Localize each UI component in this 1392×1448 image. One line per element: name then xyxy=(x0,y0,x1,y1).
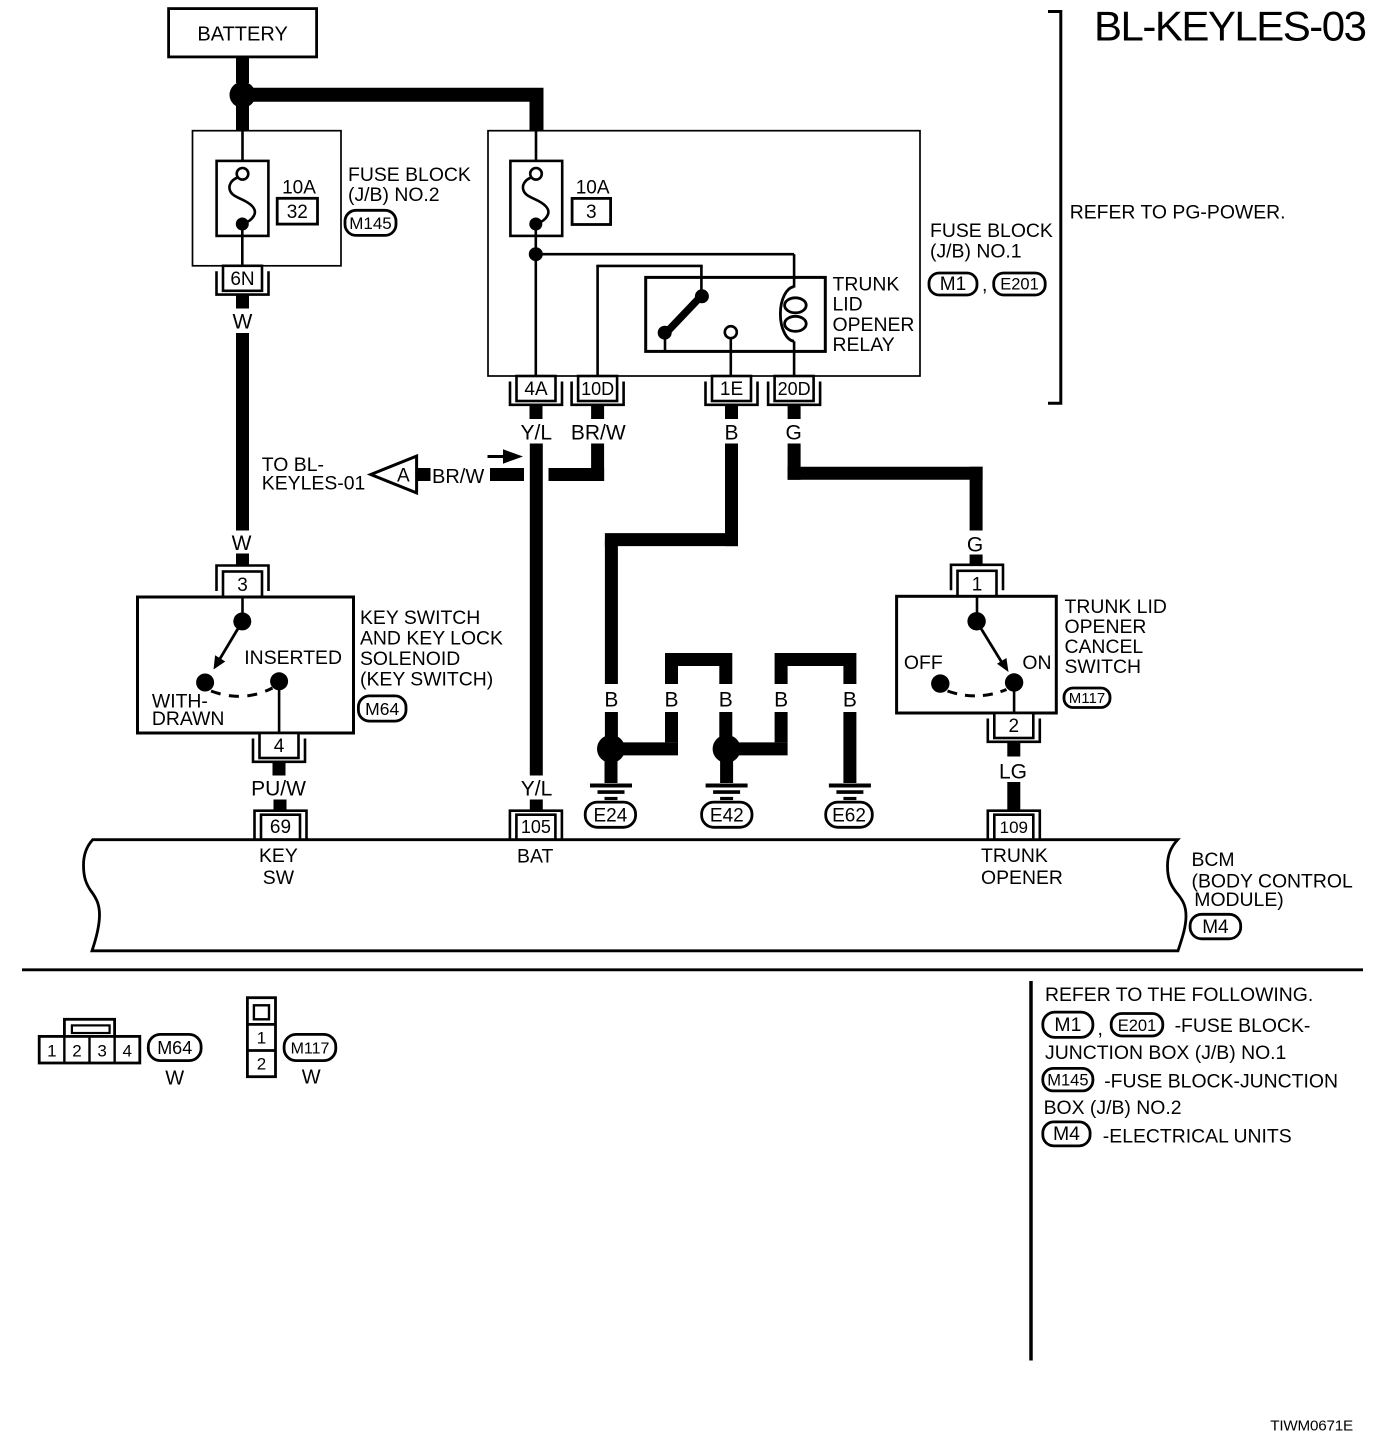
svg-text:RELAY: RELAY xyxy=(833,334,895,356)
svg-text:ON: ON xyxy=(1022,652,1051,674)
svg-text:3: 3 xyxy=(97,1042,106,1061)
svg-text:OPENER: OPENER xyxy=(981,867,1063,889)
svg-text:109: 109 xyxy=(1000,818,1028,837)
svg-text:OPENER: OPENER xyxy=(833,314,915,336)
svg-text:W: W xyxy=(232,532,252,555)
svg-text:2: 2 xyxy=(1009,716,1020,737)
svg-text:BR/W: BR/W xyxy=(432,466,484,488)
svg-text:M64: M64 xyxy=(365,699,399,719)
svg-text:(J/B) NO.2: (J/B) NO.2 xyxy=(348,184,440,206)
svg-text:M64: M64 xyxy=(157,1038,192,1058)
svg-text:OPENER: OPENER xyxy=(1065,616,1147,638)
svg-text:JUNCTION BOX (J/B) NO.1: JUNCTION BOX (J/B) NO.1 xyxy=(1045,1042,1286,1064)
svg-text:32: 32 xyxy=(287,202,308,223)
svg-text:FUSE BLOCK: FUSE BLOCK xyxy=(930,220,1053,242)
svg-text:,: , xyxy=(982,274,987,296)
svg-text:2: 2 xyxy=(72,1042,81,1061)
svg-text:10A: 10A xyxy=(282,178,316,199)
svg-text:DRAWN: DRAWN xyxy=(152,708,225,730)
svg-text:M4: M4 xyxy=(1202,917,1229,938)
svg-text:BOX (J/B) NO.2: BOX (J/B) NO.2 xyxy=(1044,1097,1182,1119)
svg-text:M1: M1 xyxy=(940,274,966,295)
svg-text:E62: E62 xyxy=(832,806,866,827)
svg-text:REFER TO PG-POWER.: REFER TO PG-POWER. xyxy=(1070,202,1286,224)
svg-text:-FUSE BLOCK-JUNCTION: -FUSE BLOCK-JUNCTION xyxy=(1104,1071,1338,1093)
svg-text:1: 1 xyxy=(47,1042,56,1061)
svg-text:105: 105 xyxy=(521,817,551,837)
svg-text:1: 1 xyxy=(257,1029,266,1048)
svg-text:OFF: OFF xyxy=(904,652,943,674)
svg-text:1E: 1E xyxy=(720,379,743,400)
svg-text:E201: E201 xyxy=(1000,276,1039,294)
svg-text:W: W xyxy=(232,311,252,334)
svg-text:M145: M145 xyxy=(1047,1072,1088,1090)
svg-text:-FUSE BLOCK-: -FUSE BLOCK- xyxy=(1175,1015,1311,1037)
svg-text:LID: LID xyxy=(833,294,863,316)
svg-text:G: G xyxy=(967,534,983,557)
svg-text:PU/W: PU/W xyxy=(251,778,306,801)
svg-text:M145: M145 xyxy=(349,214,392,233)
svg-text:W: W xyxy=(302,1067,321,1089)
svg-text:3: 3 xyxy=(586,202,597,223)
svg-text:(KEY SWITCH): (KEY SWITCH) xyxy=(360,668,493,690)
svg-text:E42: E42 xyxy=(710,806,744,827)
svg-text:SW: SW xyxy=(263,867,295,889)
svg-text:3: 3 xyxy=(237,575,248,596)
svg-text:20D: 20D xyxy=(778,379,811,399)
svg-text:1: 1 xyxy=(972,574,983,595)
svg-text:E201: E201 xyxy=(1118,1017,1157,1035)
svg-text:Y/L: Y/L xyxy=(521,422,553,445)
svg-text:69: 69 xyxy=(270,817,291,838)
svg-text:B: B xyxy=(843,689,857,712)
svg-text:(J/B) NO.1: (J/B) NO.1 xyxy=(930,240,1022,262)
svg-text:BATTERY: BATTERY xyxy=(197,24,287,46)
svg-text:MODULE): MODULE) xyxy=(1194,889,1283,911)
svg-text:TRUNK: TRUNK xyxy=(981,845,1048,867)
svg-text:M1: M1 xyxy=(1054,1014,1081,1036)
svg-text:KEY SWITCH: KEY SWITCH xyxy=(360,607,480,629)
svg-text:TRUNK: TRUNK xyxy=(833,273,900,295)
svg-text:BAT: BAT xyxy=(517,845,553,867)
svg-text:M117: M117 xyxy=(291,1041,330,1058)
svg-text:-ELECTRICAL UNITS: -ELECTRICAL UNITS xyxy=(1103,1126,1292,1148)
svg-text:B: B xyxy=(664,689,678,712)
svg-text:10A: 10A xyxy=(576,178,610,199)
svg-text:CANCEL: CANCEL xyxy=(1065,636,1144,658)
svg-text:BCM: BCM xyxy=(1192,849,1235,871)
svg-text:REFER TO THE FOLLOWING.: REFER TO THE FOLLOWING. xyxy=(1045,984,1313,1006)
svg-text:INSERTED: INSERTED xyxy=(244,647,342,669)
svg-text:TRUNK LID: TRUNK LID xyxy=(1065,596,1167,618)
svg-text:M117: M117 xyxy=(1069,690,1105,707)
svg-text:4: 4 xyxy=(122,1042,131,1061)
svg-text:KEY: KEY xyxy=(259,845,298,867)
svg-text:KEYLES-01: KEYLES-01 xyxy=(262,472,365,494)
svg-text:M4: M4 xyxy=(1053,1123,1080,1145)
svg-text:A: A xyxy=(397,466,410,487)
svg-text:BR/W: BR/W xyxy=(571,422,626,445)
svg-text:SWITCH: SWITCH xyxy=(1065,656,1141,678)
svg-text:FUSE BLOCK: FUSE BLOCK xyxy=(348,164,471,186)
svg-text:TIWM0671E: TIWM0671E xyxy=(1270,1417,1353,1434)
svg-text:Y/L: Y/L xyxy=(521,778,553,801)
svg-text:BL-KEYLES-03: BL-KEYLES-03 xyxy=(1094,3,1366,50)
svg-text:B: B xyxy=(724,422,738,445)
svg-text:E24: E24 xyxy=(593,806,627,827)
svg-text:,: , xyxy=(1098,1018,1103,1040)
svg-text:2: 2 xyxy=(257,1055,266,1074)
svg-text:10D: 10D xyxy=(581,379,614,399)
svg-text:B: B xyxy=(774,689,788,712)
svg-text:B: B xyxy=(719,689,733,712)
svg-text:AND KEY LOCK: AND KEY LOCK xyxy=(360,628,503,650)
svg-text:4A: 4A xyxy=(524,379,548,400)
svg-text:4: 4 xyxy=(274,736,285,757)
svg-text:W: W xyxy=(165,1068,184,1090)
svg-text:SOLENOID: SOLENOID xyxy=(360,648,460,670)
svg-text:6N: 6N xyxy=(230,269,254,290)
svg-text:B: B xyxy=(604,689,618,712)
svg-text:LG: LG xyxy=(999,761,1027,784)
svg-text:G: G xyxy=(786,422,802,445)
